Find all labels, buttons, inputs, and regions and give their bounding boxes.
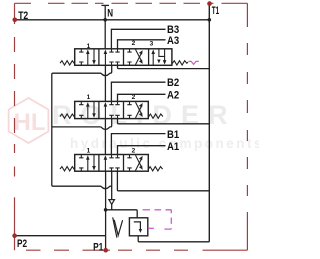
V2 neutral position symbols (104, 101, 120, 118)
V1 detent (magenta) (188, 61, 198, 64)
V1 position 3 float symbols (151, 49, 166, 65)
V1 position 1 symbols (79, 49, 96, 66)
svg-text:A1: A1 (167, 141, 179, 153)
wire V1 tank return to rail (118, 65, 210, 68)
svg-text:HL: HL (14, 109, 46, 136)
V1 spring left (60, 61, 74, 65)
svg-text:T2: T2 (18, 10, 28, 22)
svg-text:1: 1 (87, 43, 91, 50)
wire A1 work port line (118, 146, 166, 155)
label V1 position numbers (87, 40, 154, 50)
svg-text:1: 1 (87, 148, 91, 155)
watermark logo hexagon HL (9, 98, 49, 143)
V2 spring left (60, 114, 74, 118)
svg-text:1: 1 (87, 94, 91, 101)
wire B1 work port line (111, 134, 165, 155)
V2 position 2 crossed symbols (127, 101, 142, 118)
V1 position 2 crossed symbols (127, 49, 142, 66)
wire feed branch V3 with jog over carryover (53, 186, 112, 189)
svg-text:2: 2 (132, 94, 136, 101)
V1 spring right (172, 61, 188, 65)
relief valve RV1 spring (114, 220, 122, 236)
wire V3 feed riser to pressure node (111, 171, 113, 210)
wire feed branch V1 with jog over carryover (53, 65, 112, 75)
label V3 position numbers (87, 148, 136, 155)
svg-text:hydraulic components: hydraulic components (70, 136, 259, 151)
relief valve RV1 internal arrow (134, 222, 141, 229)
V3 neutral position symbols (104, 155, 120, 172)
V3 spring right (148, 167, 162, 171)
wire B3 work port line (111, 29, 165, 49)
V3 body boxes (75, 155, 149, 172)
wire A2 work port line (118, 94, 166, 101)
svg-text:P1: P1 (93, 242, 103, 254)
wire open-center carryover V2 to V3 (104, 119, 106, 155)
relief valve RV1 body (129, 218, 147, 236)
port T2 (13, 18, 18, 23)
label V2 position numbers (87, 94, 136, 101)
port P2 (12, 233, 17, 238)
svg-text:A3: A3 (167, 35, 179, 47)
V1 neutral position symbols (104, 49, 120, 66)
check flow arrow on feed riser (109, 200, 115, 205)
wire B2 work port line (111, 82, 165, 101)
wire parallel feed gallery (left rail) (52, 73, 53, 186)
wire P2 line to pressure column (15, 235, 106, 237)
V1 body boxes (75, 49, 172, 66)
svg-text:A2: A2 (167, 89, 179, 101)
relief valve RV1 adjustment arrow (113, 217, 117, 237)
svg-text:2: 2 (132, 40, 136, 47)
wire open-center down to pressure node and P1 (105, 171, 107, 250)
port N plug tick (101, 4, 109, 6)
svg-text:B2: B2 (167, 77, 179, 89)
svg-text:3: 3 (150, 40, 154, 47)
wire pressure node to relief valve (106, 210, 138, 218)
V2 spring right (149, 114, 163, 118)
wire V3 tank return to rail (117, 171, 209, 191)
svg-text:P2: P2 (17, 238, 27, 250)
svg-text:T1: T1 (212, 5, 219, 17)
wire T2 to T1 gallery (top) (15, 19, 210, 21)
svg-text:B1: B1 (167, 129, 179, 141)
port P1 (103, 248, 108, 253)
valve V2 (section 2, B2/A2) (60, 101, 163, 118)
wire feed branch V2 with jog over carryover (52, 119, 112, 130)
port T1 (207, 1, 212, 6)
relief valve RV1 pilot line (dashed) (143, 210, 172, 229)
V3 position 2 crossed symbols (127, 155, 142, 172)
wire N line down into valve V1 (104, 5, 106, 49)
V3 spring left (60, 167, 74, 171)
valve V3 (section 1, B1/A1) (60, 155, 163, 172)
V2 body boxes (75, 101, 149, 118)
V3 position 1 symbols (79, 155, 96, 172)
watermark text (52, 100, 264, 151)
wire A3 work port line (118, 40, 166, 49)
svg-text:N: N (107, 7, 113, 19)
junction T1 rail on T-gallery (208, 18, 212, 22)
junction N on T-gallery (103, 18, 107, 22)
valve block enclosure border (dashed) (15, 3, 248, 250)
wire open-center carryover V1 to V2 (104, 65, 106, 101)
V2 position 1 symbols (79, 101, 96, 118)
junction pressure node (104, 208, 108, 212)
wire T1 return rail (right) (208, 3, 210, 241)
wire relief valve outlet to tank rail (138, 236, 209, 242)
valve V1 (section 3, B3/A3) (60, 49, 188, 66)
svg-text:2: 2 (132, 148, 136, 155)
wire V2 tank return to rail (118, 119, 210, 124)
